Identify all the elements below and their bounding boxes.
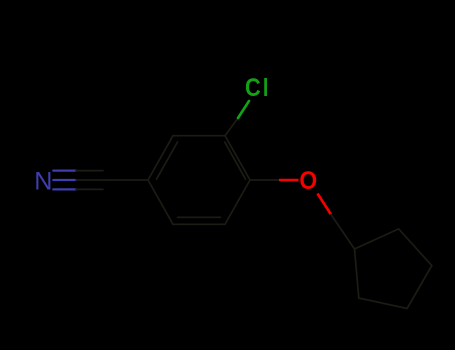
wire: triple bond carbon halves (faint) [76, 171, 148, 190]
wire: O to C1 bond red half [318, 194, 332, 215]
wire: inner double bond V5-V6 [178, 216, 221, 218]
wire: C3 to Cl bond carbon half (faint) [225, 118, 238, 136]
wire: ring edge V5-V6 [173, 223, 225, 225]
node Cl (chlorine label) [245, 74, 261, 102]
svg-text:l: l [263, 74, 268, 102]
wire: ring edge V4-V5 [225, 180, 250, 224]
wire: pentagon C2-C3 [399, 229, 432, 266]
svg-text:O: O [299, 167, 317, 195]
wire: pentagon C3-C4 [407, 266, 432, 309]
wire: pentagon C4-C5 [359, 298, 407, 308]
svg-text:N: N [34, 167, 52, 195]
wire: inner double bond V3-V4 [225, 142, 246, 179]
wire: triple bond blue halves [53, 171, 76, 190]
wire: pentagon C1-C2 [355, 229, 399, 249]
benzene ring (faint carbon skeleton) [148, 136, 250, 225]
wire: ring edge V3-V4 [225, 136, 250, 180]
wire: ring edge V1-V2 [148, 136, 173, 180]
nitrile group [53, 171, 148, 190]
wire: V4 to O bond red half [279, 179, 299, 182]
wire: O to C1 bond carbon half (faint) [331, 215, 355, 250]
svg-text:C: C [245, 74, 261, 102]
wire: inner double bond V1-V2 [157, 142, 178, 179]
wire: ring edge V6-V1 [148, 180, 173, 224]
wire: pentagon C5-C1 [355, 249, 359, 298]
node O (oxygen label) [299, 167, 317, 195]
cyclopentyl ring (faint) [355, 229, 432, 309]
wire: C3 to Cl bond green half [238, 101, 249, 118]
wire: C to ring V1 [107, 179, 148, 181]
wire: ring edge V2-V3 [173, 135, 225, 137]
wire: V4 to O bond carbon half (faint) [250, 179, 279, 181]
